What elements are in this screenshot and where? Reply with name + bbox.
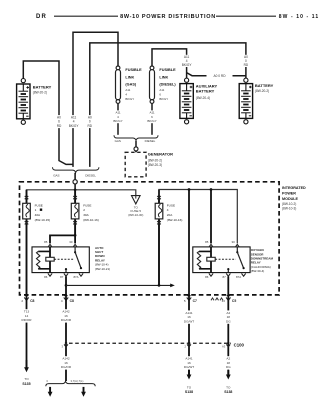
svg-text:FUSIBLE: FUSIBLE [159, 68, 176, 72]
wire: fusible link diesel output [151, 103, 153, 134]
svg-text:BK/GY: BK/GY [182, 63, 193, 67]
wire: A2 circuit to splice S138 [227, 296, 229, 375]
wire: A142 circuit [65, 296, 67, 381]
IPM B+ stud terminal (over border) [73, 180, 77, 184]
svg-text:S138: S138 [224, 390, 232, 394]
svg-text:BATTERY: BATTERY [196, 88, 215, 93]
node label under fusible link gas [112, 110, 125, 123]
node label above aux battery [180, 55, 193, 67]
svg-text:87: 87 [60, 275, 64, 279]
wire: ASD output run to fuse 4 with continuation arrow [66, 284, 171, 286]
svg-text:TO: TO [24, 377, 29, 381]
battery B2 (right) [239, 78, 252, 124]
wire: fusible link diesel top to auxiliary battery [152, 49, 187, 79]
svg-text:4: 4 [167, 208, 169, 212]
svg-text:C5: C5 [232, 299, 236, 303]
svg-text:TO: TO [226, 386, 231, 390]
wire: A0 0 RD between auxiliary battery and right battery [187, 73, 246, 76]
svg-text:FUSE: FUSE [83, 203, 91, 207]
wire: ASD relay output pin 87 [65, 276, 67, 295]
svg-text:BK/GY: BK/GY [69, 124, 80, 128]
svg-text:2: 2 [21, 299, 23, 303]
svg-text:86: 86 [205, 275, 209, 279]
svg-text:GENERATOR: GENERATOR [148, 152, 173, 157]
svg-text:30: 30 [231, 240, 235, 244]
svg-text:1: 1 [35, 208, 37, 212]
wire: right battery positive feed A0 diesel across top [90, 43, 246, 167]
relay K2 o2 sensor downstream [193, 240, 274, 279]
svg-text:(8W-10-16): (8W-10-16) [167, 218, 183, 222]
wire: bus B+ left [27, 190, 136, 196]
svg-text:85: 85 [205, 240, 209, 244]
wire: A141 circuit to splice S138 [188, 296, 190, 375]
wire: C7 output drop [188, 190, 190, 295]
connector C100 pin on A2 [222, 341, 230, 348]
svg-text:RD: RD [57, 124, 62, 128]
in-line connector C100 [69, 342, 231, 344]
svg-text:S135: S135 [22, 382, 30, 386]
label battery right [255, 83, 274, 93]
svg-text:TO: TO [187, 386, 192, 390]
svg-text:C100: C100 [234, 342, 245, 347]
connector C100 pin on A141 [185, 341, 191, 348]
node label A11 4 BK/GY [67, 115, 80, 128]
wire: bus from fuse 4 feeding relay circuits [159, 190, 237, 244]
junction on bus [74, 188, 77, 191]
svg-text:87A: 87A [73, 275, 78, 279]
svg-text:BATTERY: BATTERY [33, 85, 52, 90]
svg-text:4: 4 [61, 299, 63, 303]
svg-text:FUSIBLE: FUSIBLE [125, 68, 142, 72]
svg-text:DG/OR: DG/OR [61, 318, 72, 322]
svg-text:BK/GY: BK/GY [159, 97, 168, 101]
wire: B+ stem into IPM [74, 173, 76, 190]
svg-text:A11: A11 [125, 88, 130, 92]
svg-text:(8W-20-2): (8W-20-2) [255, 89, 269, 93]
connector pin 13 C5 [211, 293, 236, 302]
wire: T13 circuit to splice S135 [26, 296, 28, 368]
svg-text:MODULE: MODULE [282, 197, 299, 201]
node label above right battery [239, 55, 252, 67]
svg-text:A3: A3 [222, 344, 226, 348]
svg-text:40A: 40A [35, 213, 41, 217]
connector C100 pin on A142 [62, 341, 68, 348]
svg-text:BATTERY: BATTERY [255, 83, 274, 88]
fuse F1 40A [23, 190, 50, 295]
svg-text:(8W-10-16): (8W-10-16) [83, 218, 99, 222]
label integrated power module [282, 186, 306, 211]
svg-text:(8W-20-3): (8W-20-3) [148, 163, 162, 167]
svg-text:(8W-10-30): (8W-10-30) [128, 213, 143, 217]
wire: relay 2 coil feed [210, 190, 212, 244]
wire: generator feed stem [135, 141, 137, 147]
svg-text:DG/OR: DG/OR [61, 365, 72, 369]
svg-text:30A: 30A [83, 213, 89, 217]
svg-text:DG: DG [226, 319, 231, 323]
junction: fuse 4 output on ASD run [158, 284, 161, 287]
brace: A142 splice fan-out [46, 381, 95, 386]
off-page arrow to fuse 5 [132, 196, 141, 204]
svg-text:FUSE: FUSE [167, 203, 175, 207]
svg-text:GAS: GAS [53, 174, 59, 178]
node label A0 0 RD [83, 115, 96, 128]
svg-text:GAS: GAS [115, 139, 121, 143]
junction: bus to C7 output [188, 188, 191, 191]
svg-text:DIESEL: DIESEL [85, 174, 96, 178]
svg-text:POWER: POWER [282, 191, 296, 195]
wire: fusible link gas output [117, 103, 119, 134]
fuse F4 20A [155, 190, 182, 286]
svg-text:RD/OR: RD/OR [22, 318, 33, 322]
svg-text:3,7(A),7(L): 3,7(A),7(L) [71, 379, 84, 383]
svg-text:A0 0 RD: A0 0 RD [213, 74, 226, 78]
svg-text:S138: S138 [185, 390, 193, 394]
svg-text:2: 2 [83, 208, 85, 212]
fuse F2 30A [71, 190, 98, 236]
svg-text:(8W-20-4): (8W-20-4) [196, 96, 210, 100]
svg-text:(GAS): (GAS) [125, 83, 136, 87]
svg-text:DG: DG [226, 365, 231, 369]
svg-text:(8W-20-2): (8W-20-2) [33, 91, 47, 95]
svg-text:C8: C8 [30, 299, 34, 303]
svg-text:(8W-30-4): (8W-30-4) [251, 269, 264, 273]
wire: fuse 2 output to ASD relay pins 30/85 [50, 235, 75, 243]
wire: relay 2 output pin 87 [227, 276, 229, 295]
wire: left battery positive to A0 gas feed drop [23, 61, 73, 164]
brace joining battery feeds at IPM B+ input [53, 167, 99, 172]
node label under fusible link diesel [146, 110, 159, 123]
generator G1 (dashed box) [125, 152, 146, 177]
label generator [148, 152, 173, 167]
svg-text:BK/GY: BK/GY [147, 119, 156, 123]
connector pin 4 C8 [61, 293, 74, 302]
svg-text:DG/WT: DG/WT [184, 365, 194, 369]
relay K1 auto shut down [32, 240, 110, 279]
svg-text:RD: RD [244, 63, 249, 67]
connector pin 2 C8 [21, 293, 34, 302]
svg-text:86: 86 [44, 275, 48, 279]
svg-text:BK/GY: BK/GY [125, 97, 134, 101]
wire: fusible link gas top to A11 drop at x73 [73, 32, 118, 167]
integrated power module U1 (dashed boundary) [20, 182, 280, 295]
fusible link F2 (diesel) [150, 66, 177, 103]
svg-text:30: 30 [69, 240, 73, 244]
label battery left [33, 85, 52, 95]
brace joining gas/diesel feeds to generator [114, 135, 158, 140]
junction: bus to relay 2 coil [210, 188, 213, 191]
svg-text:LINK: LINK [125, 75, 134, 79]
label auxiliary battery [196, 83, 218, 100]
generator connector terminal [134, 147, 138, 151]
svg-text:8W - 10 - 11: 8W - 10 - 11 [279, 14, 319, 20]
svg-text:(DIESEL): (DIESEL) [159, 83, 176, 87]
svg-text:BK/GY: BK/GY [113, 119, 122, 123]
auxiliary battery [180, 78, 193, 124]
svg-text:87A: 87A [236, 275, 241, 279]
svg-text:8W-10 POWER DISTRIBUTION: 8W-10 POWER DISTRIBUTION [120, 14, 216, 20]
svg-text:C8: C8 [70, 299, 74, 303]
svg-text:(8W-10-3): (8W-10-3) [282, 206, 296, 210]
svg-text:DIESEL: DIESEL [145, 139, 156, 143]
svg-text:LINK: LINK [159, 75, 168, 79]
fusible link F1 (gas) [116, 66, 143, 103]
svg-text:C7: C7 [193, 299, 197, 303]
battery B1 (left) [17, 79, 30, 125]
svg-text:RD: RD [87, 124, 92, 128]
connector pin 5 C7 [184, 293, 197, 302]
svg-text:(8W-10-15): (8W-10-15) [35, 218, 51, 222]
svg-text:5: 5 [184, 299, 186, 303]
svg-text:FUSE: FUSE [35, 203, 43, 207]
svg-text:85: 85 [44, 240, 48, 244]
svg-text:DG/WT: DG/WT [184, 319, 194, 323]
svg-text:INTEGRATED: INTEGRATED [282, 186, 306, 190]
svg-text:(8W-10-21): (8W-10-21) [95, 267, 110, 271]
svg-text:87: 87 [222, 275, 226, 279]
node label A0 6 RD [53, 115, 66, 128]
svg-text:(8W-10-2): (8W-10-2) [282, 202, 296, 206]
svg-text:20A: 20A [167, 213, 173, 217]
svg-text:DR: DR [36, 14, 47, 20]
IPM B+ stud terminal [73, 180, 77, 184]
svg-text:A11: A11 [159, 88, 164, 92]
